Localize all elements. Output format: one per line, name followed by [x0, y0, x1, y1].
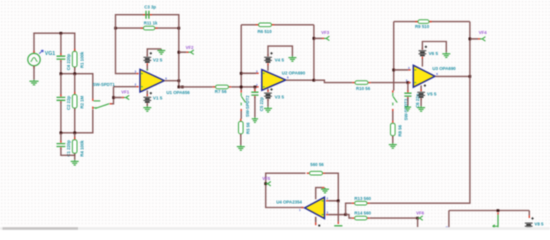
wire V3 to ground: [267, 99, 269, 107]
wire R8 to ground: [392, 136, 394, 143]
U1 V+ contact mark: [146, 69, 148, 71]
wire C1 top lead: [60, 133, 62, 142]
svg-text:SW-SPDT1: SW-SPDT1: [93, 82, 116, 87]
ground above U4: [321, 188, 329, 193]
wire C5 bottom lead: [254, 97, 256, 118]
current probe to ground: [493, 212, 501, 228]
svg-text:VF4: VF4: [479, 30, 487, 35]
wire to U1 noninverting input: [114, 86, 137, 88]
svg-text:VG1: VG1: [45, 51, 55, 57]
pin red mark U4 output: [301, 207, 303, 209]
wire U4 V+ pin: [316, 188, 322, 200]
wire output bus vertical: [469, 22, 471, 204]
op-amp U4: [305, 197, 325, 218]
junction VF1 tap: [112, 96, 115, 99]
junction lower rail / C2-C1: [60, 132, 63, 135]
horizontal scrollbar thumb: [3, 227, 79, 230]
svg-text:560 56: 560 56: [310, 162, 324, 167]
wire U4 feedback row: [266, 172, 306, 174]
wire to switch lower throw: [92, 109, 94, 132]
op-amp U1: [140, 69, 164, 92]
wire R4 top lead: [74, 133, 76, 140]
wire to R7: [179, 86, 213, 88]
ground below V1: [143, 106, 151, 111]
VG1 reference arrow: [39, 50, 43, 53]
wire U2 output: [286, 79, 315, 81]
resistor R14: [352, 216, 370, 220]
wire R13 to output bus: [370, 202, 471, 204]
svg-text:C4 220p: C4 220p: [66, 53, 71, 70]
resistor R2: [72, 92, 77, 111]
junction feedback right: [178, 27, 181, 30]
net marker (blue square): [446, 226, 449, 228]
svg-text:U3 OPA690: U3 OPA690: [432, 66, 456, 71]
U3 input polarity marks: [414, 70, 416, 83]
svg-text:R4 100k: R4 100k: [79, 140, 84, 157]
wire R14 to VF6: [370, 217, 418, 219]
wire V1 to ground: [146, 103, 148, 106]
svg-text:R1 100k: R1 100k: [79, 51, 84, 68]
wire U4 V- pin: [315, 217, 317, 225]
U1 input polarity marks: [141, 74, 143, 87]
junction output probe: [497, 209, 500, 212]
svg-text:V2 5: V2 5: [153, 57, 163, 62]
junction VF5 tap: [264, 182, 267, 185]
wire rail to ground: [74, 155, 76, 160]
junction R13/R14 split: [344, 213, 347, 216]
wire to R14: [346, 215, 352, 219]
wire U3 output: [435, 75, 471, 77]
ground below V3: [264, 107, 272, 112]
wire C5 top lead: [254, 87, 256, 90]
U4 input polarity marks: [322, 201, 324, 215]
op-amp U3: [413, 65, 435, 87]
wire feedback vertical lower: [337, 201, 339, 222]
resistor R4: [72, 137, 77, 156]
wire VF2 stub: [179, 51, 189, 53]
pin red mark bus bottom: [337, 222, 339, 224]
resistor R9: [415, 20, 432, 24]
junction VF3 tap: [313, 37, 316, 40]
wire U2 V- pin: [267, 89, 269, 92]
battery V5: [417, 84, 426, 100]
pin red mark U3 in-: [408, 82, 410, 84]
svg-text:V8 5: V8 5: [534, 222, 544, 227]
voltage generator VG1: [28, 51, 40, 69]
ground below R8: [389, 143, 397, 148]
resistor R12 560: [307, 171, 326, 175]
resistor R7: [213, 85, 232, 89]
svg-text:R11 1k: R11 1k: [144, 20, 158, 25]
U2 input polarity marks: [263, 73, 265, 87]
junction feedback / U4 in-: [337, 200, 340, 203]
wire R1 bottom lead: [74, 67, 76, 74]
battery V7 plus mark (cropped): [318, 225, 320, 227]
wire lower rail: [60, 132, 93, 134]
capacitor C2: [57, 94, 66, 103]
svg-text:R5 56: R5 56: [246, 122, 251, 134]
ground below VG1: [29, 80, 38, 85]
resistor R10: [352, 81, 371, 85]
capacitor C3: [143, 11, 152, 19]
wire switch2 to R5: [240, 111, 242, 119]
junction VF4 tap: [469, 38, 472, 41]
wire U3 V- pin: [420, 85, 422, 91]
wire to U3 inverting input: [394, 69, 411, 71]
svg-text:C1 220p: C1 220p: [66, 140, 71, 157]
resistor R6: [256, 23, 275, 27]
wire C6 top lead: [407, 83, 409, 92]
ground below V5: [417, 106, 425, 111]
resistor R1: [72, 49, 77, 70]
junction top rail / C4: [60, 32, 63, 35]
wire feedback to input vertical: [325, 173, 338, 200]
wire C2 bottom lead: [60, 102, 62, 134]
wire R2 bottom lead: [74, 108, 76, 133]
svg-text:VF2: VF2: [186, 45, 194, 50]
wire VF1 stub: [114, 97, 125, 99]
svg-text:V3 5: V3 5: [275, 95, 285, 100]
wire C1 bottom lead: [60, 148, 62, 155]
wire VF4 stub: [470, 38, 481, 40]
switch SW-SPDT2: [241, 90, 245, 111]
ground below R4: [71, 160, 79, 165]
test point VF1: [124, 95, 129, 99]
svg-text:C5 22p: C5 22p: [259, 97, 264, 111]
resistor R5: [239, 119, 244, 137]
resistor R8: [391, 121, 396, 139]
junction VF6 tap: [416, 217, 419, 220]
wire V4 to ground: [268, 46, 292, 56]
ground above U3 supply: [442, 52, 450, 57]
battery V3: [264, 88, 273, 101]
pin red mark U2 in-: [256, 86, 258, 88]
ground above U2 supply: [288, 56, 296, 61]
wire U1 output: [164, 80, 179, 82]
junction U2 output: [313, 79, 316, 82]
battery V1: [143, 92, 152, 105]
wire U4 inverting input: [326, 200, 338, 202]
wire U2 feedback rail: [241, 24, 314, 26]
junction U3 output: [469, 75, 472, 78]
wire VG1 bottom lead: [33, 66, 35, 79]
junction R7 row: [181, 86, 184, 89]
svg-text:R2 1M: R2 1M: [79, 95, 84, 108]
capacitor C6: [404, 90, 411, 99]
horizontal scrollbar track: [0, 227, 550, 230]
junction U3 input row: [407, 81, 410, 84]
wire U2 V+ pin: [267, 64, 269, 71]
junction U2 input row: [240, 86, 243, 89]
svg-text:R7 56: R7 56: [215, 89, 227, 94]
junction mid rail / C4-C2: [60, 72, 63, 75]
junction U2 inverting tee: [240, 72, 243, 75]
wire C4 top lead: [60, 33, 62, 54]
wire output vertical: [178, 14, 180, 87]
svg-text:VF6: VF6: [416, 211, 424, 216]
switch SW-SPDT1: [93, 99, 112, 109]
wire bottom rail: [60, 154, 75, 156]
svg-text:U1 OPA656: U1 OPA656: [166, 90, 190, 95]
junction U3 inverting tee: [392, 69, 395, 72]
wire to V8: [528, 211, 530, 216]
resistor R11: [141, 26, 158, 30]
ground below R5: [237, 145, 245, 150]
wire feedback rail C3: [116, 14, 179, 16]
wire to switch upper throw: [92, 74, 94, 99]
test point VF3: [324, 36, 329, 40]
svg-text:R9 510: R9 510: [415, 24, 430, 29]
wire to U2 inverting input: [241, 72, 259, 74]
svg-text:SW-SPDT2: SW-SPDT2: [245, 95, 250, 117]
test point VF2: [188, 50, 193, 54]
wire U4 noninverting input: [326, 214, 346, 216]
svg-text:V5 5: V5 5: [427, 91, 437, 96]
svg-text:R13 560: R13 560: [354, 196, 371, 201]
svg-text:R8 56: R8 56: [398, 124, 403, 136]
resistor R13: [352, 201, 370, 205]
wire C6 bottom lead: [407, 98, 409, 106]
svg-text:C3 3p: C3 3p: [144, 5, 156, 10]
svg-text:VF1: VF1: [121, 90, 129, 95]
wire U3 feedback rail: [394, 21, 470, 23]
ground below C6: [405, 106, 412, 111]
capacitor C5: [251, 89, 258, 98]
wire V6 to ground: [422, 42, 446, 53]
svg-text:R14 560: R14 560: [354, 210, 371, 215]
pin red mark V8 top: [528, 215, 530, 218]
battery V4: [264, 52, 273, 65]
wire VF6 node down: [417, 218, 419, 227]
wire to R13: [346, 203, 352, 214]
wire U1 V- pin: [146, 90, 148, 96]
junction C5 tap: [254, 86, 257, 89]
svg-text:C2 22p: C2 22p: [66, 96, 71, 110]
svg-text:R10 56: R10 56: [356, 86, 371, 91]
junction lower rail / R2-R4: [73, 132, 76, 135]
test point VF5: [265, 182, 270, 186]
wire U3 V+ pin: [421, 58, 423, 66]
wire U4 output run: [266, 173, 304, 208]
wire V5 to ground: [420, 98, 422, 106]
ground below C5: [252, 117, 258, 122]
battery V2: [143, 52, 152, 65]
battery V8: [525, 217, 534, 228]
wire VF3 stub: [314, 37, 325, 39]
wire U2 feedback left vertical: [240, 25, 242, 91]
pin red mark U1 in+: [136, 73, 138, 75]
svg-text:V4 5: V4 5: [275, 57, 285, 62]
wire switch3 to R8: [392, 111, 394, 121]
ground above U1 supply: [157, 49, 165, 54]
wire top rail: [33, 32, 75, 34]
wire R1 top lead: [74, 33, 76, 51]
pin red mark U4 V+: [322, 187, 324, 189]
wire bottom-left stub: [448, 211, 450, 228]
junction mid rail / R1-R2: [73, 72, 76, 75]
wire VG1 top lead: [33, 33, 35, 53]
component plate at bottom edge (cropped): [334, 225, 342, 227]
wire R10 to U3: [371, 82, 409, 84]
op-amp U2: [262, 70, 286, 91]
wire R7 to U2 input: [231, 86, 256, 88]
junction U1 output: [178, 79, 181, 82]
wire output step: [314, 80, 352, 82]
wire C2 top lead: [60, 74, 62, 96]
wire mid rail: [60, 73, 93, 75]
wire U2 feedback right vertical: [313, 25, 315, 80]
svg-text:VF3: VF3: [321, 30, 329, 35]
wire R4 bottom lead: [74, 154, 76, 156]
wire R2 top lead: [74, 74, 76, 95]
svg-text:V6 5: V6 5: [429, 51, 439, 56]
capacitor C1: [57, 141, 66, 150]
capacitor C4: [57, 53, 66, 62]
wire C4 bottom lead: [60, 61, 62, 75]
svg-text:U4 OPA2354: U4 OPA2354: [276, 200, 302, 205]
wire feedback rail R11: [116, 27, 179, 29]
wire U1 V+ pin: [146, 64, 148, 70]
wire feedback left vertical: [116, 14, 137, 74]
wire R5 to ground: [240, 134, 242, 145]
junction VF2 tap: [178, 51, 181, 54]
svg-text:VF5: VF5: [262, 176, 270, 181]
wire U3 feedback left vertical: [393, 22, 395, 91]
test point VF4: [480, 37, 485, 41]
wire switch pole: [112, 87, 114, 104]
svg-text:R6 510: R6 510: [258, 29, 273, 34]
junction output to R7 row: [178, 86, 181, 89]
wire V2 to ground: [147, 49, 161, 57]
svg-text:V1 5: V1 5: [153, 95, 163, 100]
switch SW-SPDT3: [393, 90, 397, 111]
svg-text:U2 OPA690: U2 OPA690: [282, 71, 306, 76]
junction feedback left: [114, 27, 117, 30]
wire bottom row: [449, 210, 529, 212]
pin red mark U1 in-: [136, 86, 138, 88]
test point VF6: [417, 216, 422, 220]
battery V6: [419, 46, 428, 59]
